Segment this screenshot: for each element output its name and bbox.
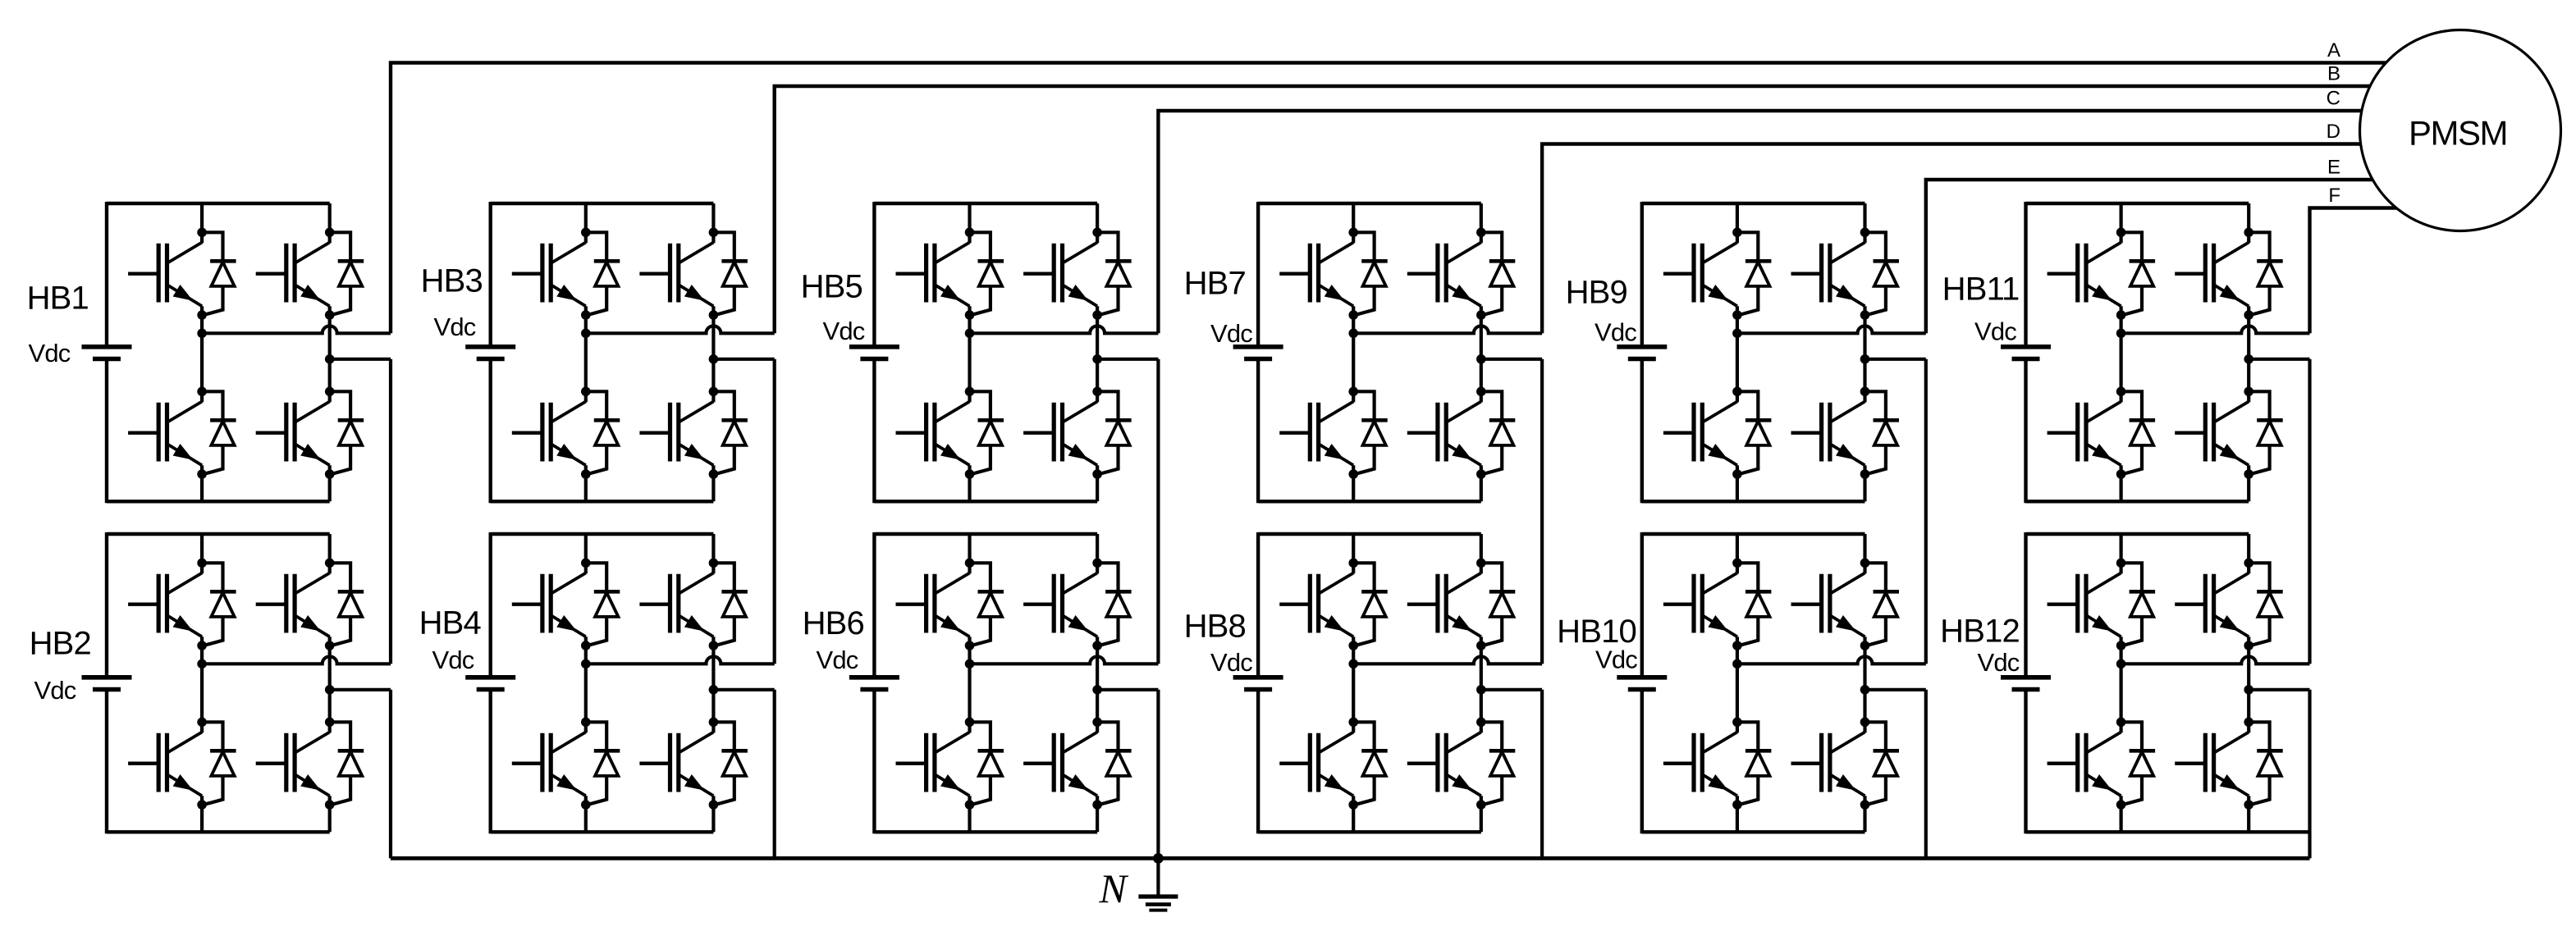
node HB7.out2 junction dot: [1476, 354, 1486, 364]
wire HB10 left edge to battery: [1640, 532, 1644, 833]
node HB10.out2 junction dot: [1860, 685, 1870, 695]
transistor HB9.Q2 (IGBT): [1663, 402, 1737, 466]
svg-text:Vdc: Vdc: [1974, 317, 2016, 346]
transistor HB7.Q4 (IGBT): [1407, 402, 1481, 466]
svg-text:HB11: HB11: [1942, 272, 2020, 308]
diode HB10.D4 (freewheeling): [1865, 722, 1900, 805]
wire HB5 top DC rail: [874, 202, 1097, 205]
node HB3.out1 junction dot: [581, 329, 591, 339]
battery Vdc of HB5 positive plate: [849, 345, 899, 349]
node HB1.out2 junction dot: [325, 354, 335, 364]
battery Vdc of HB11 positive plate: [2001, 345, 2051, 349]
node HB11.out2 junction dot: [2244, 354, 2253, 364]
wire HB8.out2 drop to neutral bus: [1540, 690, 1544, 859]
transistor HB3.Q1 (IGBT): [512, 243, 586, 307]
svg-text:HB10: HB10: [1557, 614, 1636, 650]
transistor HB8.Q1 (IGBT): [1279, 573, 1353, 637]
svg-text:A: A: [2327, 39, 2340, 62]
transistor HB10.Q1 (IGBT): [1663, 573, 1737, 637]
wire HB3 left edge to battery: [489, 202, 492, 503]
transistor HB5.Q3 (IGBT): [1023, 243, 1097, 307]
node HB11.out1 junction dot: [2116, 329, 2126, 339]
wire HB1 left leg: [200, 203, 204, 501]
diode HB9.D1 (freewheeling): [1737, 232, 1772, 315]
battery Vdc of HB12 positive plate: [2001, 675, 2051, 680]
diode HB7.D2 (freewheeling): [1353, 391, 1388, 474]
junction dots HB11 device nodes: [2116, 228, 2253, 479]
wire HB10 top DC rail: [1642, 532, 1865, 536]
transistor HB11.Q2 (IGBT): [2048, 402, 2121, 466]
battery Vdc of HB3 negative plate: [477, 357, 505, 362]
node HB8.out2 junction dot: [1476, 685, 1486, 695]
wire HB7 bottom DC rail: [1258, 500, 1481, 503]
diode HB12.D1 (freewheeling): [2121, 563, 2156, 646]
wire HB9 left edge to battery: [1640, 202, 1644, 503]
wire HB1 left edge to battery: [105, 202, 108, 503]
diode HB7.D4 (freewheeling): [1481, 391, 1516, 474]
transistor HB1.Q4 (IGBT): [256, 402, 330, 466]
wire HB10.out2: [1865, 688, 1926, 691]
wire HB11.out2: [2249, 358, 2309, 361]
diode HB10.D3 (freewheeling): [1865, 563, 1900, 646]
wire series link HB1.out2 to HB2.out1: [389, 359, 392, 664]
wire HB3 bottom DC rail: [491, 500, 714, 503]
transistor HB11.Q1 (IGBT): [2048, 243, 2121, 307]
junction dots HB6 device nodes: [965, 559, 1102, 810]
transistor HB9.Q1 (IGBT): [1663, 243, 1737, 307]
wire HB9 left leg: [1736, 203, 1739, 501]
wire HB5.out2: [1097, 358, 1158, 361]
wire HB8 bottom DC rail: [1258, 830, 1481, 833]
node HB2.out2 junction dot: [325, 685, 335, 695]
svg-text:HB8: HB8: [1184, 609, 1246, 645]
wire phase F from HB11.out1 riser and bus to PMSM: [2310, 208, 2405, 334]
svg-text:HB4: HB4: [419, 605, 482, 641]
transistor HB4.Q4 (IGBT): [639, 732, 713, 796]
transistor HB3.Q3 (IGBT): [639, 243, 713, 307]
wire HB4 top DC rail: [491, 532, 714, 536]
wire HB10.out1 with crossover hop over right leg: [1737, 656, 1926, 664]
wire HB7 top DC rail: [1258, 202, 1481, 205]
diode HB2.D4 (freewheeling): [330, 722, 364, 805]
battery Vdc of HB1 positive plate: [82, 345, 132, 349]
transistor HB3.Q2 (IGBT): [512, 402, 586, 466]
transistor HB6.Q3 (IGBT): [1023, 573, 1097, 637]
node HB4.out2 junction dot: [709, 685, 719, 695]
transistor HB1.Q1 (IGBT): [128, 243, 202, 307]
transistor HB10.Q3 (IGBT): [1791, 573, 1865, 637]
wire HB3.out2: [713, 358, 774, 361]
transistor HB9.Q4 (IGBT): [1791, 402, 1865, 466]
transistor HB12.Q3 (IGBT): [2175, 573, 2249, 637]
wire HB11 left edge to battery: [2024, 202, 2027, 503]
wire phase D from HB7.out1 riser and bus to PMSM: [1542, 144, 2404, 334]
node HB9.out2 junction dot: [1860, 354, 1870, 364]
H-bridge cell HB5: [801, 202, 1159, 503]
node HB4.out1 junction dot: [581, 659, 591, 669]
wire HB8.out1 with crossover hop over right leg: [1353, 656, 1542, 664]
svg-text:HB2: HB2: [30, 626, 91, 662]
battery Vdc of HB6 negative plate: [860, 687, 888, 692]
H-bridge cell HB3: [421, 202, 775, 503]
battery Vdc of HB9 negative plate: [1628, 357, 1656, 362]
diode HB6.D4 (freewheeling): [1097, 722, 1132, 805]
wire HB10.out2 drop to neutral bus: [1924, 690, 1928, 859]
wire HB3 top DC rail: [491, 202, 714, 205]
battery Vdc of HB11 negative plate: [2012, 357, 2040, 362]
wire HB2 top DC rail: [107, 532, 330, 536]
diode HB7.D3 (freewheeling): [1481, 232, 1516, 315]
wire HB4.out1 with crossover hop over right leg: [586, 656, 775, 664]
wire HB4.out2 drop to neutral bus: [773, 690, 776, 859]
wire HB5 right leg: [1096, 203, 1099, 501]
transistor HB2.Q1 (IGBT): [128, 573, 202, 637]
H-bridge cell HB6: [803, 532, 1159, 833]
wire series link HB3.out2 to HB4.out1: [773, 359, 776, 664]
node HB6.out2 junction dot: [1092, 685, 1102, 695]
wire neutral bus N: [391, 856, 2310, 860]
junction dots HB12 device nodes: [2116, 559, 2253, 810]
diode HB5.D3 (freewheeling): [1097, 232, 1132, 315]
svg-text:F: F: [2328, 185, 2340, 207]
wire HB6 left edge to battery: [872, 532, 876, 833]
node HB9.out1 junction dot: [1732, 329, 1742, 339]
node HB6.out1 junction dot: [965, 659, 975, 669]
diode HB5.D2 (freewheeling): [970, 391, 1004, 474]
ground symbol at node N: [1138, 858, 1178, 910]
svg-text:Vdc: Vdc: [432, 646, 474, 674]
wire HB3.out1 with crossover hop over right leg: [586, 326, 775, 333]
diode HB12.D2 (freewheeling): [2121, 722, 2156, 805]
transistor HB6.Q1 (IGBT): [896, 573, 970, 637]
wire HB2 bottom DC rail: [107, 830, 330, 833]
diode HB5.D4 (freewheeling): [1097, 391, 1132, 474]
wire HB3 left leg: [584, 203, 588, 501]
wire HB11 bottom DC rail: [2026, 500, 2249, 503]
wire HB12.out1 with crossover hop over right leg: [2121, 656, 2310, 664]
diode HB3.D1 (freewheeling): [586, 232, 620, 315]
node HB5.out1 junction dot: [965, 329, 975, 339]
transistor HB5.Q1 (IGBT): [896, 243, 970, 307]
transistor HB2.Q4 (IGBT): [256, 732, 330, 796]
transistor HB1.Q3 (IGBT): [256, 243, 330, 307]
wire series link HB9.out2 to HB10.out1: [1924, 359, 1928, 664]
wire series link HB5.out2 to HB6.out1: [1156, 359, 1160, 664]
battery Vdc of HB6 positive plate: [849, 675, 899, 680]
wire HB7.out2: [1481, 358, 1542, 361]
diode HB1.D2 (freewheeling): [202, 391, 236, 474]
transistor HB5.Q2 (IGBT): [896, 402, 970, 466]
wire HB9.out2: [1865, 358, 1926, 361]
H-bridge cell HB1: [27, 202, 391, 503]
node HB7.out1 junction dot: [1348, 329, 1358, 339]
diode HB12.D3 (freewheeling): [2249, 563, 2283, 646]
svg-text:PMSM: PMSM: [2409, 114, 2507, 153]
wire HB11 left leg: [2120, 203, 2123, 501]
wire HB12.out2 drop to neutral bus: [2308, 690, 2311, 859]
transistor HB10.Q2 (IGBT): [1663, 732, 1737, 796]
transistor HB9.Q3 (IGBT): [1791, 243, 1865, 307]
wire phase A from HB1.out1 riser and bus to PMSM: [391, 63, 2404, 334]
battery Vdc of HB2 positive plate: [82, 675, 132, 680]
wire HB8 top DC rail: [1258, 532, 1481, 536]
battery Vdc of HB9 positive plate: [1617, 345, 1667, 349]
transistor HB12.Q2 (IGBT): [2048, 732, 2121, 796]
H-bridge cell HB7: [1184, 202, 1543, 503]
diode HB9.D4 (freewheeling): [1865, 391, 1900, 474]
transistor HB4.Q3 (IGBT): [639, 573, 713, 637]
H-bridge cell HB9: [1566, 202, 1926, 503]
wire HB4 left edge to battery: [489, 532, 492, 833]
diode HB6.D2 (freewheeling): [970, 722, 1004, 805]
wire HB12 right leg: [2247, 534, 2250, 832]
diode HB1.D1 (freewheeling): [202, 232, 236, 315]
battery Vdc of HB10 negative plate: [1628, 687, 1656, 692]
diode HB4.D4 (freewheeling): [713, 722, 748, 805]
diode HB8.D3 (freewheeling): [1481, 563, 1516, 646]
svg-text:N: N: [1099, 865, 1129, 911]
diode HB11.D4 (freewheeling): [2249, 391, 2283, 474]
diode HB4.D3 (freewheeling): [713, 563, 748, 646]
svg-text:C: C: [2327, 88, 2340, 110]
wire HB5.out1 with crossover hop over right leg: [970, 326, 1159, 333]
node HB3.out2 junction dot: [709, 354, 719, 364]
H-bridge cell HB2: [30, 532, 391, 833]
diode HB3.D4 (freewheeling): [713, 391, 748, 474]
junction dots HB10 device nodes: [1732, 559, 1869, 810]
H-bridge cell HB11: [1942, 202, 2310, 503]
battery Vdc of HB4 positive plate: [465, 675, 515, 680]
diode HB4.D2 (freewheeling): [586, 722, 620, 805]
junction dots HB4 device nodes: [581, 559, 718, 810]
wire HB1 right leg: [328, 203, 332, 501]
battery Vdc of HB5 negative plate: [860, 357, 888, 362]
wire HB10 bottom DC rail: [1642, 830, 1865, 833]
node HB1.out1 junction dot: [197, 329, 207, 339]
wire HB12.out2: [2249, 688, 2309, 691]
wire HB8 left leg: [1352, 534, 1355, 832]
wire HB10 left leg: [1736, 534, 1739, 832]
wire HB4 bottom DC rail: [491, 830, 714, 833]
diode HB3.D3 (freewheeling): [713, 232, 748, 315]
transistor HB4.Q1 (IGBT): [512, 573, 586, 637]
battery Vdc of HB7 positive plate: [1233, 345, 1283, 349]
diode HB8.D4 (freewheeling): [1481, 722, 1516, 805]
battery Vdc of HB10 positive plate: [1617, 675, 1667, 680]
junction dots HB5 device nodes: [965, 228, 1102, 479]
wire HB9.out1 with crossover hop over right leg: [1737, 326, 1926, 333]
junction dots HB1 device nodes: [197, 228, 334, 479]
svg-text:HB1: HB1: [27, 281, 89, 317]
wire HB12 top DC rail: [2026, 532, 2249, 536]
svg-text:D: D: [2327, 121, 2340, 143]
junction dots HB2 device nodes: [197, 559, 334, 810]
junction dots HB3 device nodes: [581, 228, 718, 479]
wire HB1 top DC rail: [107, 202, 330, 205]
diode HB11.D2 (freewheeling): [2121, 391, 2156, 474]
svg-text:Vdc: Vdc: [433, 313, 475, 341]
svg-text:Vdc: Vdc: [816, 646, 858, 674]
node HB2.out1 junction dot: [197, 659, 207, 669]
node HB12.out1 junction dot: [2116, 659, 2126, 669]
junction dots HB9 device nodes: [1732, 228, 1869, 479]
diode HB5.D1 (freewheeling): [970, 232, 1004, 315]
wire HB2.out1 with crossover hop over right leg: [202, 656, 391, 664]
svg-text:E: E: [2327, 157, 2340, 179]
diode HB8.D1 (freewheeling): [1353, 563, 1388, 646]
diode HB6.D3 (freewheeling): [1097, 563, 1132, 646]
battery Vdc of HB4 negative plate: [477, 687, 505, 692]
node HB12.out2 junction dot: [2244, 685, 2253, 695]
transistor HB8.Q4 (IGBT): [1407, 732, 1481, 796]
transistor HB7.Q2 (IGBT): [1279, 402, 1353, 466]
wire HB6 top DC rail: [874, 532, 1097, 536]
junction dots HB8 device nodes: [1348, 559, 1485, 810]
transistor HB8.Q2 (IGBT): [1279, 732, 1353, 796]
wire HB2 left leg: [200, 534, 204, 832]
svg-text:Vdc: Vdc: [28, 339, 70, 367]
svg-text:Vdc: Vdc: [1595, 318, 1636, 347]
wire HB8.out2: [1481, 688, 1542, 691]
wire HB7 left leg: [1352, 203, 1355, 501]
wire HB10 right leg: [1863, 534, 1866, 832]
wire HB7.out1 with crossover hop over right leg: [1353, 326, 1542, 333]
battery Vdc of HB3 positive plate: [465, 345, 515, 349]
diode HB11.D1 (freewheeling): [2121, 232, 2156, 315]
H-bridge cell HB10: [1557, 532, 1926, 833]
diode HB10.D1 (freewheeling): [1737, 563, 1772, 646]
wire HB5 bottom DC rail: [874, 500, 1097, 503]
motor PMSM: [2360, 30, 2561, 231]
wire HB5 left edge to battery: [872, 202, 876, 503]
wire HB11.out1 with crossover hop over right leg: [2121, 326, 2310, 333]
wire HB4 left leg: [584, 534, 588, 832]
diode HB9.D3 (freewheeling): [1865, 232, 1900, 315]
wire HB9 right leg: [1863, 203, 1866, 501]
node N junction dot: [1153, 853, 1164, 864]
diode HB2.D3 (freewheeling): [330, 563, 364, 646]
wire HB6 bottom DC rail: [874, 830, 1097, 833]
diode HB1.D3 (freewheeling): [330, 232, 364, 315]
wire HB6.out2 drop to neutral bus: [1156, 690, 1160, 859]
transistor HB12.Q1 (IGBT): [2048, 573, 2121, 637]
transistor HB7.Q3 (IGBT): [1407, 243, 1481, 307]
wire HB12 left leg: [2120, 534, 2123, 832]
H-bridge cell HB12: [1940, 532, 2309, 833]
diode HB12.D4 (freewheeling): [2249, 722, 2283, 805]
wire HB6.out1 with crossover hop over right leg: [970, 656, 1159, 664]
battery Vdc of HB8 negative plate: [1244, 687, 1272, 692]
wire HB7 right leg: [1480, 203, 1483, 501]
transistor HB2.Q2 (IGBT): [128, 732, 202, 796]
wire HB7 left edge to battery: [1256, 202, 1260, 503]
wire HB2 right leg: [328, 534, 332, 832]
diode HB9.D2 (freewheeling): [1737, 391, 1772, 474]
transistor HB11.Q4 (IGBT): [2175, 402, 2249, 466]
wire HB6 right leg: [1096, 534, 1099, 832]
svg-text:Vdc: Vdc: [1977, 648, 2019, 677]
transistor HB12.Q4 (IGBT): [2175, 732, 2249, 796]
diode HB2.D2 (freewheeling): [202, 722, 236, 805]
transistor HB11.Q3 (IGBT): [2175, 243, 2249, 307]
diode HB4.D1 (freewheeling): [586, 563, 620, 646]
wire HB2.out2: [330, 688, 391, 691]
wire HB2.out2 drop to neutral bus: [389, 690, 392, 859]
diode HB11.D3 (freewheeling): [2249, 232, 2283, 315]
wire phase B from HB3.out1 riser and bus to PMSM: [775, 86, 2404, 333]
wire HB6.out2: [1097, 688, 1158, 691]
wire HB6 left leg: [968, 534, 971, 832]
wire phase E from HB9.out1 riser and bus to PMSM: [1926, 180, 2404, 333]
battery Vdc of HB12 negative plate: [2012, 687, 2040, 692]
transistor HB8.Q3 (IGBT): [1407, 573, 1481, 637]
svg-text:HB6: HB6: [803, 605, 864, 641]
wire HB1.out2: [330, 358, 391, 361]
transistor HB4.Q2 (IGBT): [512, 732, 586, 796]
wire HB9 bottom DC rail: [1642, 500, 1865, 503]
diode HB3.D2 (freewheeling): [586, 391, 620, 474]
svg-text:Vdc: Vdc: [822, 317, 864, 345]
svg-text:B: B: [2327, 63, 2340, 85]
battery Vdc of HB1 negative plate: [93, 357, 121, 362]
svg-text:HB5: HB5: [801, 269, 862, 305]
node HB10.out1 junction dot: [1732, 659, 1742, 669]
wire HB11 top DC rail: [2026, 202, 2249, 205]
diode HB8.D2 (freewheeling): [1353, 722, 1388, 805]
wire HB2 left edge to battery: [105, 532, 108, 833]
H-bridge cell HB8: [1184, 532, 1543, 833]
transistor HB5.Q4 (IGBT): [1023, 402, 1097, 466]
svg-text:HB7: HB7: [1184, 266, 1246, 302]
transistor HB7.Q1 (IGBT): [1279, 243, 1353, 307]
svg-text:Vdc: Vdc: [1210, 648, 1252, 677]
wire HB12 left edge to battery: [2024, 532, 2027, 833]
junction dots HB7 device nodes: [1348, 228, 1485, 479]
diode HB1.D4 (freewheeling): [330, 391, 364, 474]
wire series link HB11.out2 to HB12.out1: [2308, 359, 2311, 664]
wire HB4 right leg: [711, 534, 715, 832]
svg-text:HB3: HB3: [421, 263, 483, 299]
diode HB7.D1 (freewheeling): [1353, 232, 1388, 315]
node HB8.out1 junction dot: [1348, 659, 1358, 669]
wire HB1 bottom DC rail: [107, 500, 330, 503]
transistor HB2.Q3 (IGBT): [256, 573, 330, 637]
svg-text:HB9: HB9: [1566, 275, 1627, 311]
transistor HB6.Q2 (IGBT): [896, 732, 970, 796]
diode HB10.D2 (freewheeling): [1737, 722, 1772, 805]
diode HB2.D1 (freewheeling): [202, 563, 236, 646]
svg-text:Vdc: Vdc: [34, 676, 75, 705]
node HB5.out2 junction dot: [1092, 354, 1102, 364]
wire HB3 right leg: [711, 203, 715, 501]
wire HB8 left edge to battery: [1256, 532, 1260, 833]
wire HB12 bottom DC rail: [2026, 830, 2310, 833]
transistor HB3.Q4 (IGBT): [639, 402, 713, 466]
wire series link HB7.out2 to HB8.out1: [1540, 359, 1544, 664]
wire HB11 right leg: [2247, 203, 2250, 501]
wire HB4.out2: [713, 688, 774, 691]
transistor HB1.Q2 (IGBT): [128, 402, 202, 466]
wire HB5 left leg: [968, 203, 971, 501]
svg-text:HB12: HB12: [1940, 614, 2020, 650]
battery Vdc of HB2 negative plate: [93, 687, 121, 692]
transistor HB10.Q4 (IGBT): [1791, 732, 1865, 796]
wire HB8 right leg: [1480, 534, 1483, 832]
H-bridge cell HB4: [419, 532, 775, 833]
transistor HB6.Q4 (IGBT): [1023, 732, 1097, 796]
wire HB1.out1 with crossover hop over right leg: [202, 326, 391, 333]
battery Vdc of HB8 positive plate: [1233, 675, 1283, 680]
